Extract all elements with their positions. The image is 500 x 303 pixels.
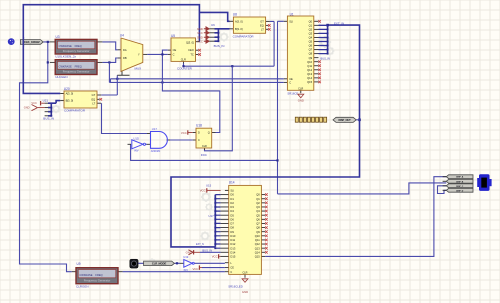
pins U21 bbox=[45, 102, 48, 104]
wire MUX select black stub bbox=[117, 71, 129, 75]
svg-text:A[3..0]: A[3..0] bbox=[66, 92, 74, 96]
led row bbox=[295, 117, 298, 122]
svg-text:U14: U14 bbox=[229, 181, 235, 185]
wire VCC to FDC D bbox=[188, 132, 193, 134]
wire VCC to U14 SLI bbox=[207, 189, 221, 191]
svg-text:CLR: CLR bbox=[298, 86, 303, 90]
svg-text:Q12: Q12 bbox=[255, 242, 261, 246]
svg-text:CE: CE bbox=[289, 77, 293, 81]
svg-text:Q2: Q2 bbox=[256, 201, 260, 205]
frequency generator U7 bbox=[55, 60, 97, 75]
wire BUS_IN to U14 D14 bbox=[200, 251, 221, 253]
svg-text:Q6: Q6 bbox=[309, 44, 313, 48]
wire U21 VCC red bbox=[41, 102, 44, 104]
svg-text:SLI: SLI bbox=[230, 190, 234, 193]
svg-text:SR16CLED: SR16CLED bbox=[228, 285, 242, 289]
wire U20 LT down to AND input 1 bbox=[102, 103, 148, 133]
svg-text:EQ: EQ bbox=[91, 97, 95, 101]
wire DB branch down to C line bbox=[108, 62, 110, 82]
wire CE net: to U1 pin CE bbox=[110, 79, 283, 83]
svg-text:C: C bbox=[173, 52, 175, 56]
wire VCC to U14 D15 bbox=[219, 255, 220, 257]
comparator U8 bbox=[233, 17, 265, 33]
flip flop U18 FDC bbox=[196, 128, 212, 148]
pins U20 bbox=[60, 93, 64, 95]
svg-text:B[3..0]: B[3..0] bbox=[66, 99, 74, 103]
wire INV1 input loop from SLI net bbox=[131, 144, 278, 160]
svg-text:Q8: Q8 bbox=[309, 52, 313, 56]
svg-text:D0: D0 bbox=[230, 193, 234, 197]
wire C net: to U1 pin C bbox=[109, 81, 283, 83]
svg-text:CLR: CLR bbox=[181, 57, 186, 61]
wire MUX Y to U5 C and CE, down to FDC Q bbox=[147, 50, 220, 132]
svg-text:COMPARATOR: COMPARATOR bbox=[64, 109, 86, 113]
svg-text:Q13: Q13 bbox=[307, 72, 313, 76]
pins U14 right bbox=[261, 194, 265, 196]
svg-text:VCC: VCC bbox=[181, 131, 187, 135]
pins U8 bbox=[230, 20, 234, 22]
pins U7 bbox=[50, 61, 55, 63]
svg-text:Frequency Generator: Frequency Generator bbox=[84, 279, 111, 283]
svg-text:BUS_IN: BUS_IN bbox=[321, 56, 330, 60]
svg-text:U4: U4 bbox=[120, 34, 124, 38]
pins INV1 bbox=[128, 143, 132, 145]
svg-text:COUNTER: COUNTER bbox=[177, 67, 193, 71]
pins MUX U4 bbox=[118, 49, 121, 51]
svg-text:Q1: Q1 bbox=[309, 23, 313, 27]
wire button pill INV row bbox=[138, 262, 180, 264]
svg-text:VCC: VCC bbox=[192, 267, 198, 271]
svg-text:Q14: Q14 bbox=[255, 250, 261, 254]
svg-text:COMPARATOR: COMPARATOR bbox=[233, 35, 255, 39]
svg-text:U3: U3 bbox=[56, 35, 60, 39]
svg-text:Q[3..0]: Q[3..0] bbox=[186, 40, 194, 44]
svg-text:U1XLKGEN_2x: U1XLKGEN_2x bbox=[55, 54, 76, 58]
connector icon blue bbox=[477, 175, 491, 191]
svg-text:D12: D12 bbox=[230, 242, 235, 246]
port DISP_A bbox=[446, 175, 473, 179]
svg-text:U20: U20 bbox=[64, 87, 70, 91]
svg-text:D1: D1 bbox=[230, 197, 234, 201]
wire INV1 output to AND input 2 bbox=[146, 143, 148, 145]
wire overlay on CLK pill bbox=[22, 37, 24, 47]
svg-text:Y: Y bbox=[138, 53, 140, 57]
pins U5 bbox=[168, 49, 171, 51]
svg-text:GND: GND bbox=[197, 35, 203, 39]
port CLR_MODE bbox=[144, 261, 175, 266]
svg-text:GND: GND bbox=[242, 290, 248, 294]
gnd symbol U14 bbox=[242, 279, 248, 283]
svg-text:MUX: MUX bbox=[135, 67, 142, 71]
svg-text:Q8: Q8 bbox=[256, 226, 260, 230]
junction dots on combs bbox=[217, 32, 219, 34]
svg-text:Q9: Q9 bbox=[256, 230, 260, 234]
svg-text:CLRGEN: CLRGEN bbox=[76, 284, 89, 288]
pins U1 right Q0..Q15 bbox=[314, 20, 319, 22]
bus A[3..0] top loop from U5 Q to comparators bbox=[23, 5, 229, 94]
svg-text:DA: DA bbox=[123, 48, 127, 52]
svg-text:Q5: Q5 bbox=[256, 213, 260, 217]
svg-text:EXT_IN: EXT_IN bbox=[334, 21, 344, 25]
pins U9 CLRGEN bbox=[72, 271, 76, 273]
bus EXT_IN from U1 Q1-Q8 big loop to U14 D inputs bbox=[171, 25, 360, 247]
svg-text:SR16CE: SR16CE bbox=[287, 92, 298, 96]
svg-text:Q2: Q2 bbox=[309, 27, 313, 31]
wire MUX select tie to CE net and U20 GT bbox=[101, 75, 117, 95]
svg-text:Q0: Q0 bbox=[256, 193, 260, 197]
svg-text:D4: D4 bbox=[230, 209, 234, 213]
svg-text:D10: D10 bbox=[230, 234, 235, 238]
svg-text:VCC: VCC bbox=[197, 39, 203, 43]
svg-text:B[3..0]: B[3..0] bbox=[235, 27, 243, 31]
wire INV2 out to U14 L bbox=[194, 262, 225, 264]
svg-text:D6: D6 bbox=[230, 217, 234, 221]
inverter U19 bbox=[184, 260, 192, 268]
wire SLI net to port row2 bbox=[278, 183, 447, 194]
svg-text:D2: D2 bbox=[230, 201, 234, 205]
svg-text:EXT_N: EXT_N bbox=[196, 243, 204, 246]
comparator U20 bbox=[64, 91, 97, 108]
svg-text:Q11: Q11 bbox=[255, 238, 260, 242]
svg-text:C: C bbox=[230, 271, 232, 274]
svg-text:EQ: EQ bbox=[260, 23, 264, 27]
pin U14 CLR bbox=[244, 274, 246, 277]
svg-text:Q13: Q13 bbox=[255, 246, 261, 250]
and gate U17 bbox=[151, 132, 168, 149]
svg-text:DISP_C: DISP_C bbox=[456, 186, 464, 188]
svg-text:CLR: CLR bbox=[202, 145, 207, 148]
svg-text:D14: D14 bbox=[230, 250, 235, 254]
svg-text:Q15: Q15 bbox=[307, 80, 313, 84]
svg-text:DISP_B: DISP_B bbox=[456, 181, 464, 183]
svg-text:D11: D11 bbox=[230, 238, 235, 242]
svg-text:DISP_A: DISP_A bbox=[456, 176, 464, 179]
shift register U14 bbox=[229, 185, 262, 274]
frequency generator U9 CLRGEN bbox=[76, 268, 118, 284]
wire SLI net vertical bbox=[278, 21, 284, 194]
mux U4 bbox=[121, 38, 143, 71]
svg-text:U18: U18 bbox=[196, 124, 202, 128]
svg-text:GT: GT bbox=[92, 93, 96, 97]
svg-text:ULKGEN: ULKGEN bbox=[55, 75, 67, 79]
svg-text:Q4: Q4 bbox=[256, 209, 260, 213]
wire U14 Q15 to port row1 bbox=[265, 177, 446, 257]
wire port row3 row4 hook bbox=[438, 186, 447, 194]
svg-text:Q3: Q3 bbox=[256, 205, 260, 209]
port DISP_D bbox=[446, 188, 473, 192]
gnd symbol U1 bbox=[298, 94, 304, 98]
wire DISP_OUT pill to bus bbox=[356, 119, 359, 121]
svg-text:D8: D8 bbox=[230, 226, 234, 230]
svg-text:GND: GND bbox=[24, 106, 30, 110]
svg-text:DISP_OUT: DISP_OUT bbox=[339, 118, 352, 122]
svg-text:TC: TC bbox=[190, 53, 194, 57]
svg-text:U9: U9 bbox=[77, 262, 81, 266]
wire CLRGEN out to U14 C bbox=[123, 271, 225, 273]
svg-text:BUS_IN: BUS_IN bbox=[214, 44, 225, 48]
wire U7 output to MUX DB with branch down bbox=[102, 58, 117, 62]
svg-text:SLI: SLI bbox=[289, 19, 293, 23]
svg-text:INV: INV bbox=[134, 149, 139, 153]
pin U1 CLR bbox=[300, 90, 302, 93]
svg-text:VCC: VCC bbox=[200, 189, 206, 193]
svg-text:Q14: Q14 bbox=[307, 76, 313, 80]
pins FDC U18 bbox=[193, 132, 196, 134]
port DISP_C bbox=[446, 184, 473, 188]
svg-text:Q3: Q3 bbox=[309, 32, 313, 36]
pins U1 left bbox=[284, 20, 288, 22]
svg-text:LT: LT bbox=[261, 27, 264, 31]
svg-text:BUS_IN: BUS_IN bbox=[202, 249, 212, 253]
svg-text:Q4: Q4 bbox=[309, 36, 313, 40]
decorative faint gears bbox=[127, 48, 133, 54]
svg-text:Q7: Q7 bbox=[309, 48, 313, 52]
svg-text:CEO: CEO bbox=[188, 48, 194, 52]
wire U5 CLR line to U8 GT and FDC CLR bbox=[184, 21, 275, 66]
svg-text:CWKRASE FREQ: CWKRASE FREQ bbox=[59, 44, 82, 48]
svg-text:GND: GND bbox=[197, 27, 203, 31]
svg-text:C: C bbox=[198, 138, 200, 142]
wire U3 output to MUX DA bbox=[102, 42, 117, 50]
svg-text:D9: D9 bbox=[230, 230, 234, 234]
svg-text:INV: INV bbox=[184, 268, 189, 272]
push button bbox=[130, 259, 138, 268]
svg-text:A[3..0]: A[3..0] bbox=[235, 19, 243, 23]
svg-text:BUS_IN: BUS_IN bbox=[43, 116, 54, 120]
svg-text:U17: U17 bbox=[152, 127, 158, 131]
svg-text:Q0: Q0 bbox=[309, 19, 313, 23]
port CLK_IN bbox=[20, 40, 43, 45]
inverter U1D bbox=[132, 140, 143, 149]
svg-text:VCC: VCC bbox=[212, 255, 218, 259]
svg-text:VCC: VCC bbox=[197, 31, 203, 35]
svg-text:DB: DB bbox=[123, 56, 127, 60]
svg-text:CLR_MODE: CLR_MODE bbox=[152, 261, 167, 265]
svg-text:AND2N: AND2N bbox=[151, 149, 160, 153]
svg-text:Q1: Q1 bbox=[256, 197, 260, 201]
svg-text:Q11: Q11 bbox=[307, 64, 312, 68]
svg-text:U21: U21 bbox=[43, 99, 49, 103]
pins AND bbox=[147, 133, 151, 135]
svg-text:CE: CE bbox=[230, 267, 234, 270]
port DISP_B bbox=[446, 179, 473, 183]
svg-text:Q10: Q10 bbox=[255, 234, 261, 238]
svg-text:Q9: Q9 bbox=[309, 56, 313, 60]
svg-text:U17: U17 bbox=[209, 214, 215, 218]
svg-text:U19: U19 bbox=[183, 255, 189, 259]
svg-text:D: D bbox=[198, 131, 200, 135]
pins INV2 bbox=[180, 262, 184, 264]
svg-text:Q6: Q6 bbox=[256, 217, 260, 221]
svg-text:U1: U1 bbox=[290, 12, 294, 16]
svg-text:CE: CE bbox=[173, 48, 177, 52]
bus D comb U14 D0..D13 bbox=[214, 195, 216, 247]
shift register U1 bbox=[287, 16, 313, 90]
svg-text:Q12: Q12 bbox=[307, 68, 313, 72]
wire U21 GND red bbox=[38, 107, 45, 109]
svg-text:CWKRASE FREQ: CWKRASE FREQ bbox=[59, 65, 82, 69]
counter U5 bbox=[171, 38, 196, 62]
port DISP_OUT bbox=[333, 117, 356, 122]
svg-text:GND: GND bbox=[298, 99, 304, 103]
svg-text:Frequency Generator: Frequency Generator bbox=[63, 49, 90, 53]
input connector icon top-left bbox=[8, 38, 15, 45]
svg-text:LT: LT bbox=[92, 101, 95, 105]
svg-text:FDC: FDC bbox=[201, 153, 208, 157]
svg-text:Q15: Q15 bbox=[255, 255, 261, 259]
svg-text:CLR: CLR bbox=[242, 271, 247, 274]
wire VCC to U14 CE bbox=[202, 267, 225, 269]
svg-text:Frequency Generator: Frequency Generator bbox=[63, 69, 90, 73]
frequency generator U3 bbox=[55, 39, 97, 54]
svg-text:U6: U6 bbox=[211, 23, 215, 27]
svg-text:D3: D3 bbox=[230, 205, 234, 209]
wire CLK_IN net: pill to U3 input, branch down to U7 and CLRGEN bbox=[20, 42, 72, 272]
svg-text:DISP_D: DISP_D bbox=[456, 190, 464, 192]
svg-text:CLK_10KHZ: CLK_10KHZ bbox=[24, 40, 40, 44]
svg-text:D15: D15 bbox=[230, 255, 235, 259]
svg-text:D13: D13 bbox=[230, 246, 235, 250]
svg-text:U1D: U1D bbox=[133, 136, 139, 140]
wire FDC CLR return bbox=[205, 66, 233, 151]
bus stubs U1 Q1..Q8 bbox=[319, 25, 328, 53]
no-connect marks bbox=[268, 24, 271, 27]
svg-text:U5: U5 bbox=[171, 34, 175, 38]
svg-text:GT: GT bbox=[260, 19, 264, 23]
pins U6 bbox=[209, 28, 215, 30]
pins U14 left bbox=[225, 189, 229, 191]
svg-text:Q5: Q5 bbox=[309, 40, 313, 44]
svg-text:C: C bbox=[289, 81, 291, 85]
pins U3 bbox=[50, 41, 55, 43]
svg-text:D5: D5 bbox=[230, 213, 234, 217]
svg-text:U15: U15 bbox=[206, 183, 212, 187]
svg-text:U8: U8 bbox=[233, 13, 237, 17]
wire AND output to FDC C bbox=[170, 139, 193, 141]
svg-text:Q7: Q7 bbox=[256, 222, 260, 226]
svg-text:D7: D7 bbox=[230, 222, 234, 226]
svg-text:CWKRASE FREQ: CWKRASE FREQ bbox=[79, 273, 102, 277]
bus U6 comb to U8 B bbox=[215, 29, 230, 41]
svg-text:Q: Q bbox=[208, 131, 210, 135]
svg-text:Q10: Q10 bbox=[307, 60, 313, 64]
bus U21 comb to U20 B bbox=[48, 101, 60, 116]
